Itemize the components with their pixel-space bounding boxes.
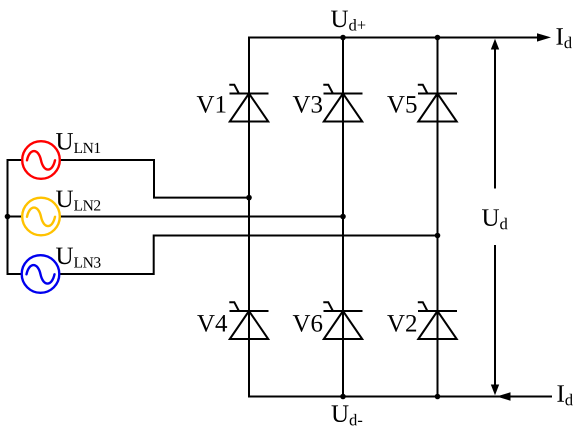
label Ud+: [331, 11, 365, 31]
thyristor V6: [323, 302, 362, 339]
label Id bottom: [557, 385, 572, 405]
thyristor V3: [323, 85, 362, 122]
junction node bottom rail leg2: [340, 394, 346, 400]
wire bus to source 2: [7, 216, 23, 218]
junction node top rail leg2: [340, 35, 346, 41]
wire phase 1 source to step: [60, 160, 250, 198]
arrow Id top: [537, 33, 551, 41]
label V4: [197, 315, 227, 332]
thyristor V4: [229, 302, 268, 339]
label ULN1: [56, 133, 100, 153]
wire left neutral bus: [7, 159, 9, 275]
label ULN2: [56, 191, 100, 211]
wire bus to source 3: [7, 273, 23, 275]
thyristor V2: [418, 302, 457, 339]
label Ud: [482, 209, 508, 229]
junction node top rail leg3: [435, 35, 441, 41]
AC source ULN2 (yellow): [22, 198, 60, 236]
wire bridge leg 1: [248, 37, 250, 398]
wire phase 3 source to step: [60, 236, 439, 275]
AC source ULN1 (red): [22, 141, 60, 179]
label V1: [197, 96, 226, 113]
arrow Ud measurement line: [494, 47, 496, 387]
label V6: [293, 315, 323, 332]
wire bus to source 1: [7, 159, 23, 161]
label V3: [293, 96, 322, 113]
wire bottom rail Ud-: [248, 396, 552, 398]
wire bridge leg 2: [342, 38, 344, 397]
wire bridge leg 3: [437, 38, 439, 397]
junction node bottom rail leg3: [435, 394, 441, 400]
junction node phase1-leg1: [246, 195, 252, 201]
wire phase 2 source to leg 2: [60, 216, 344, 218]
label ULN3: [56, 248, 101, 268]
thyristor V1: [229, 85, 268, 122]
label Id top: [556, 28, 571, 48]
arrow Ud head up: [491, 39, 499, 50]
label V2: [387, 315, 416, 332]
junction node left bus: [5, 214, 11, 220]
AC source ULN3 (blue): [22, 255, 60, 293]
junction node phase3-leg3: [435, 233, 441, 239]
label V5: [387, 96, 416, 113]
arrow Ud head down: [491, 385, 499, 396]
junction node phase2-leg2: [340, 214, 346, 220]
label Ud-: [332, 405, 363, 425]
arrow Id bottom (pointing left): [497, 392, 511, 400]
thyristor V5: [418, 85, 457, 122]
wire top rail Ud+: [248, 37, 539, 39]
